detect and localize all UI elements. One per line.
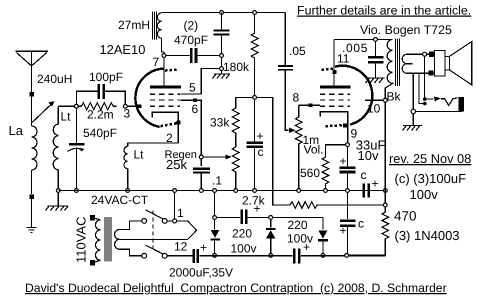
terminal circle secondary top bbox=[423, 52, 427, 56]
wire pin9 to 560 bbox=[326, 145, 346, 157]
svg-text:David's Duodecal Delightful C: David's Duodecal Delightful Compactron C… bbox=[25, 281, 447, 295]
earth ground antenna bbox=[27, 228, 37, 233]
node 33uF rail bbox=[346, 189, 350, 193]
wire antenna lead bbox=[31, 94, 33, 126]
wire pin3 to grid bbox=[127, 105, 138, 107]
junction square La bottom bbox=[29, 195, 34, 200]
title caption bbox=[25, 281, 447, 295]
svg-text:240uH: 240uH bbox=[37, 72, 72, 86]
power transformer primary bbox=[95, 218, 101, 262]
junction square speaker bottom bbox=[429, 70, 434, 75]
tube V1 envelope arc bbox=[135, 69, 163, 127]
switch pole2 blade bbox=[146, 245, 163, 254]
jack tip dot bbox=[423, 97, 427, 101]
switch pole1 contact left bbox=[142, 219, 147, 224]
node 2.2m left bbox=[75, 104, 79, 108]
node Lt rail bbox=[56, 189, 60, 193]
tube V1 plate bbox=[150, 86, 181, 89]
tube V2 heater dots bottom bbox=[326, 125, 343, 126]
svg-text:.1: .1 bbox=[212, 174, 222, 188]
svg-text:1: 1 bbox=[177, 206, 184, 220]
label 110VAC bbox=[74, 217, 89, 264]
tube V2 plate bbox=[320, 86, 351, 89]
node tickler rail bbox=[126, 189, 130, 193]
terminal circle jack sleeve bbox=[411, 109, 415, 113]
tube V2 grid rows bbox=[320, 94, 350, 106]
svg-text:470pF: 470pF bbox=[174, 33, 208, 47]
wire secondary bottom to switch bbox=[120, 249, 142, 256]
ground 470pF bbox=[213, 71, 230, 79]
junction square antenna bbox=[30, 92, 35, 97]
capacitor 470pF vertical bbox=[214, 13, 230, 68]
diode D1 bbox=[210, 192, 220, 253]
bottom supply wire bbox=[200, 255, 386, 257]
wire node down to 540pF bbox=[75, 108, 77, 143]
node 470pF junction upper bbox=[220, 54, 224, 58]
tube V1 grid rows bbox=[150, 94, 180, 106]
svg-text:+: + bbox=[303, 240, 310, 254]
svg-text:+: + bbox=[340, 224, 347, 238]
svg-text:33k: 33k bbox=[210, 116, 230, 130]
node top rail 470pF bbox=[220, 11, 224, 15]
node B+ 2.7k bbox=[383, 203, 387, 207]
potentiometer 1m element bbox=[295, 105, 302, 190]
wire cathode to tickler bbox=[128, 143, 179, 147]
svg-text:(3) 1N4003: (3) 1N4003 bbox=[395, 228, 460, 243]
wire node to 33k bbox=[236, 96, 253, 98]
svg-text:8: 8 bbox=[293, 91, 300, 105]
svg-text:Vio. Bogen T725: Vio. Bogen T725 bbox=[360, 23, 452, 37]
svg-text:25k: 25k bbox=[166, 157, 187, 172]
speaker bbox=[435, 42, 472, 85]
resistor 180k bbox=[251, 14, 258, 95]
wire pin5 bbox=[181, 69, 220, 94]
svg-text:5: 5 bbox=[189, 81, 196, 95]
capacitor 33uF bbox=[340, 147, 356, 191]
svg-text:Lt: Lt bbox=[134, 148, 145, 162]
node pin7 bbox=[162, 54, 166, 58]
main ground rail wire bbox=[58, 190, 385, 192]
inductor Lt tickler bbox=[124, 147, 128, 191]
svg-text:c: c bbox=[358, 217, 364, 231]
power transformer secondary bbox=[115, 230, 120, 250]
svg-text:10v: 10v bbox=[358, 148, 379, 163]
inductor 27mH bbox=[157, 13, 164, 56]
switch pole1 blade bbox=[146, 210, 163, 219]
label (3) 1N4003 bbox=[395, 228, 460, 243]
svg-text:10: 10 bbox=[367, 102, 381, 116]
svg-text:100v: 100v bbox=[410, 187, 439, 202]
terminal circle heater corner bbox=[173, 219, 177, 223]
switch pole2 contact right bbox=[162, 253, 167, 258]
switch link dashed bbox=[152, 210, 154, 251]
wire to speaker top bbox=[427, 53, 435, 55]
tube V1 cathode bbox=[152, 112, 178, 142]
node D1 rail bbox=[213, 189, 217, 193]
capacitor 100uF vertical bbox=[340, 192, 356, 253]
wire plate V2 top bbox=[334, 38, 393, 40]
capacitor .005 bbox=[368, 41, 383, 78]
capacitor .05 bbox=[278, 13, 293, 131]
svg-text:27mH: 27mH bbox=[118, 18, 150, 32]
junction square heater pin2 bbox=[176, 121, 180, 125]
ground .005 bbox=[366, 78, 385, 83]
tube V1 heater dots bottom bbox=[161, 123, 178, 126]
diode D3 bbox=[318, 231, 328, 254]
svg-text:100v: 100v bbox=[231, 242, 257, 256]
resistor 2.7k horizontal bbox=[290, 202, 383, 209]
node pin10 Bk bbox=[383, 98, 387, 102]
node D2 bottom bbox=[269, 254, 273, 258]
node D1 bottom bbox=[213, 254, 217, 258]
svg-text:Vol.: Vol. bbox=[304, 143, 324, 157]
wire La to earth bbox=[31, 199, 33, 227]
junction square pin8 bbox=[309, 103, 313, 107]
svg-text:Lt: Lt bbox=[61, 110, 72, 124]
node top rail 180k bbox=[253, 11, 257, 15]
label 100v right note bbox=[410, 187, 439, 202]
node wiper pin6 line bbox=[199, 155, 203, 159]
svg-text:2000uF,35V: 2000uF,35V bbox=[169, 266, 233, 280]
inductor La bbox=[32, 126, 38, 194]
svg-text:6: 6 bbox=[192, 102, 199, 116]
svg-text:2.2m: 2.2m bbox=[87, 108, 114, 122]
node 25k rail bbox=[234, 189, 238, 193]
capacitor 540pF variable bbox=[68, 144, 85, 190]
diode D2 bbox=[266, 219, 276, 253]
label (c)(3)100uF bbox=[395, 171, 467, 186]
svg-text:Bk: Bk bbox=[387, 90, 402, 104]
label Regen bbox=[165, 149, 197, 161]
jack spring contact bbox=[441, 98, 458, 106]
wire Lt top to node bbox=[58, 105, 76, 107]
wire node to 2.7k drop bbox=[257, 97, 291, 205]
capacitor 220uF first bbox=[242, 210, 269, 225]
capacitor 2000uF bbox=[194, 249, 198, 263]
tube V1 plate stem pin7 bbox=[163, 57, 165, 86]
wire doubler mid bbox=[217, 217, 241, 219]
switch pole2 contact left bbox=[142, 253, 147, 258]
node .005 bbox=[374, 38, 378, 42]
capacitor C filter rail series bbox=[364, 183, 369, 197]
note further details bbox=[297, 4, 471, 18]
node rail right bbox=[383, 189, 387, 193]
resistor 560 bbox=[322, 157, 329, 191]
svg-text:12: 12 bbox=[174, 240, 188, 254]
wire secondary top to switch bbox=[120, 221, 142, 230]
svg-text:2: 2 bbox=[166, 131, 173, 145]
wire switch pole2 out bbox=[167, 255, 192, 257]
junction square speaker top bbox=[429, 52, 434, 57]
node D1 mid bbox=[213, 216, 217, 220]
svg-text:La: La bbox=[9, 123, 24, 138]
resistor 33k bbox=[232, 97, 239, 147]
ground jack bbox=[403, 114, 423, 131]
resistor 470 bbox=[349, 207, 389, 255]
capacitor 470pF horizontal bbox=[191, 48, 221, 63]
capacitor 100pF bbox=[76, 84, 125, 105]
svg-text:+: + bbox=[257, 129, 264, 143]
label rev date bbox=[389, 151, 471, 166]
svg-text:560: 560 bbox=[300, 166, 320, 180]
svg-text:+: + bbox=[340, 154, 347, 168]
wire switch pole1 out bbox=[167, 220, 173, 222]
node heater rail bbox=[173, 189, 177, 193]
tube V2 cathode bbox=[320, 112, 347, 143]
node 1m rail bbox=[297, 189, 301, 193]
wire pin7 to cap bbox=[166, 55, 190, 57]
svg-text:540pF: 540pF bbox=[83, 126, 117, 140]
node 100uF bottom bbox=[345, 254, 349, 258]
svg-text:.05: .05 bbox=[289, 44, 306, 58]
svg-text:12AE10: 12AE10 bbox=[100, 42, 146, 57]
node 560 rail bbox=[324, 189, 328, 193]
tube V2 plate stem pin11 bbox=[333, 39, 335, 86]
junction square mains top bbox=[90, 215, 95, 220]
top rail wire bbox=[162, 12, 286, 14]
svg-text:c: c bbox=[258, 145, 264, 159]
node 540pF rail bbox=[75, 189, 79, 193]
power transformer core bbox=[105, 217, 111, 262]
svg-text:7: 7 bbox=[153, 55, 160, 69]
svg-text:24VAC-CT: 24VAC-CT bbox=[91, 193, 149, 207]
node pin9 bbox=[346, 143, 350, 147]
node D3 bottom bbox=[321, 254, 325, 258]
output transformer secondary bbox=[402, 54, 434, 73]
svg-text:+: + bbox=[372, 177, 379, 191]
capacitor .1 bbox=[193, 169, 210, 191]
switch pole1 contact right bbox=[162, 219, 167, 224]
node Lt-top junction bbox=[75, 104, 79, 108]
label 25k bbox=[166, 157, 187, 172]
jack ring dot bbox=[423, 102, 427, 106]
svg-text:c: c bbox=[361, 168, 367, 182]
svg-text:Further details are in the art: Further details are in the article. bbox=[297, 4, 471, 18]
ground left rail bbox=[46, 192, 69, 211]
junction square pin6 bbox=[193, 98, 197, 102]
svg-text:11: 11 bbox=[337, 52, 350, 66]
capacitor 220uF second bbox=[294, 249, 299, 264]
wire pin6 bbox=[181, 100, 202, 166]
wiper arrow 1m bbox=[289, 128, 296, 133]
tube V1 heater dots top bbox=[165, 69, 178, 70]
wire pin10 bbox=[365, 99, 383, 101]
jack body bar bbox=[458, 97, 464, 112]
junction square grid pin3 bbox=[138, 104, 142, 108]
wire jack tip feed bbox=[424, 56, 426, 99]
wire heater pin1 up bbox=[174, 192, 176, 219]
output transformer primary bbox=[385, 39, 392, 98]
svg-text:+: + bbox=[254, 202, 261, 216]
tube V2 heater dots top bbox=[322, 69, 334, 70]
wire center tap bbox=[120, 238, 188, 240]
wiper arrow 25k bbox=[201, 154, 232, 159]
output transformer core bbox=[396, 39, 400, 87]
inductor Lt main bbox=[53, 106, 58, 190]
svg-text:470: 470 bbox=[394, 209, 417, 224]
capacitor C filter first bbox=[247, 99, 264, 191]
svg-text:110VAC: 110VAC bbox=[74, 217, 89, 264]
jack tip arrow bbox=[427, 97, 442, 102]
node 2.2m right bbox=[123, 104, 127, 108]
wire jack sleeve bbox=[416, 110, 463, 112]
node D2 mid bbox=[269, 216, 273, 220]
svg-text:100pF: 100pF bbox=[89, 70, 123, 84]
svg-text:+: + bbox=[200, 241, 207, 255]
junction square mains bottom bbox=[90, 260, 95, 265]
svg-text:(2): (2) bbox=[184, 19, 199, 33]
resistor 2.2m bbox=[78, 103, 116, 110]
svg-text:180k: 180k bbox=[223, 60, 250, 74]
svg-text:220: 220 bbox=[232, 227, 252, 241]
wire pin8 bbox=[299, 104, 320, 106]
wire B+ vertical bbox=[384, 100, 386, 203]
tube V2 envelope arc bbox=[335, 66, 372, 125]
potentiometer 25k element bbox=[232, 147, 239, 191]
antenna bbox=[16, 51, 49, 94]
junction square V2 heater bbox=[343, 123, 347, 127]
node C1 rail bbox=[253, 189, 257, 193]
wire CT jog bbox=[177, 221, 197, 240]
junction square V2 top bbox=[332, 70, 336, 74]
core 27mH bbox=[153, 12, 157, 40]
arrow variable coupling La-Lt bbox=[31, 101, 55, 123]
svg-text:rev. 25 Nov 08: rev. 25 Nov 08 bbox=[389, 151, 471, 166]
node 180k bottom bbox=[253, 96, 257, 100]
node .1 rail bbox=[199, 189, 203, 193]
wire jack ring feed bbox=[413, 73, 423, 109]
node 470pF junction lower bbox=[220, 67, 224, 71]
wire mid to D3 bbox=[273, 217, 323, 229]
svg-text:(c) (3)100uF: (c) (3)100uF bbox=[395, 171, 467, 186]
svg-text:220: 220 bbox=[288, 218, 308, 232]
svg-text:3: 3 bbox=[124, 107, 131, 121]
